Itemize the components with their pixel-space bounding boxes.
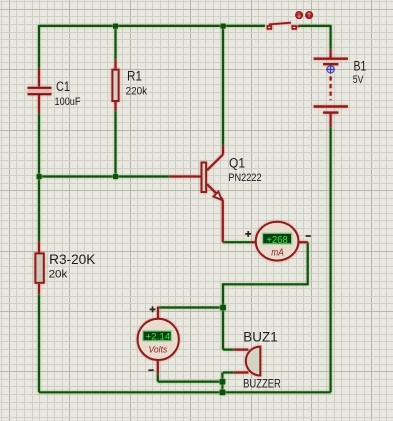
- switch actuator dot right: [305, 11, 313, 19]
- junction voltmeter minus-buzzer column: [220, 379, 226, 385]
- wire: buzzer column upper vertical: [222, 283, 224, 349]
- wire: bottom rail: [39, 391, 331, 393]
- svg-text:PN2222: PN2222: [228, 172, 261, 184]
- wire: voltmeter minus lead lower: [157, 374, 159, 382]
- svg-text:C1: C1: [56, 79, 70, 94]
- wire: R1 bottom lead wire: [114, 111, 116, 177]
- svg-text:5V: 5V: [353, 74, 364, 86]
- buzzer BUZ1: [234, 347, 260, 376]
- wire: right rail battery to bottom corner: [330, 127, 332, 392]
- wire: buzzer bottom pin wire: [223, 371, 234, 373]
- junction base-left rail: [37, 174, 42, 179]
- ammeter U-mA: [251, 222, 308, 261]
- wire: voltmeter plus horizontal wire: [159, 306, 223, 308]
- resistor R3: [35, 242, 43, 294]
- ammeter minus sign: [306, 235, 311, 237]
- svg-text:BUZ1: BUZ1: [243, 329, 277, 344]
- svg-text:20k: 20k: [49, 269, 68, 281]
- wire: emitter to ammeter plus wire: [223, 241, 251, 243]
- svg-text:100uF: 100uF: [55, 96, 81, 108]
- wire: ammeter to buzzer column horizontal: [223, 283, 309, 285]
- svg-text:R3-20K: R3-20K: [49, 252, 95, 267]
- svg-text:Volts: Volts: [149, 344, 168, 355]
- junction collector top: [221, 24, 226, 29]
- wire: top rail from left corner to switch: [39, 25, 331, 392]
- svg-text:mA: mA: [271, 247, 284, 258]
- wire: left rail top segment (corner to C1): [38, 25, 40, 68]
- switch actuator dot left: [295, 11, 303, 19]
- wire: buzzer top pin wire: [223, 349, 234, 351]
- junction buzzer column-bottom rail: [220, 390, 226, 396]
- wire: switch to top-right corner: [299, 25, 331, 27]
- switch SW1 open blade and terminals: [267, 23, 300, 29]
- wire: ammeter minus down: [307, 242, 309, 284]
- wire: voltmeter minus horizontal to junction: [158, 381, 223, 383]
- battery origin marker: [326, 65, 335, 74]
- voltmeter U-Volts: [138, 307, 179, 375]
- svg-text:B1: B1: [354, 59, 367, 74]
- wire: collector wire down from top rail: [222, 26, 224, 146]
- battery B1: [314, 50, 348, 127]
- svg-text:Q1: Q1: [229, 155, 245, 170]
- wire: base wire from left rail: [39, 175, 170, 177]
- wire: buzzer column lower vertical: [221, 373, 223, 393]
- junction voltmeter plus-buzzer column: [220, 305, 226, 311]
- junction R1 top: [113, 24, 118, 29]
- wire: left rail C1 to R3: [38, 113, 40, 242]
- svg-text:R1: R1: [127, 68, 142, 83]
- svg-text:220k: 220k: [126, 86, 148, 98]
- ammeter plus sign: [245, 231, 251, 237]
- wire: R1 top lead wire: [114, 25, 116, 60]
- svg-text:+2.14: +2.14: [145, 331, 170, 342]
- resistor R1: [112, 60, 118, 111]
- wire: top-right corner down to battery: [330, 25, 332, 50]
- voltmeter plus sign: [150, 306, 156, 312]
- svg-text:BUZZER: BUZZER: [243, 377, 281, 391]
- svg-text:+268: +268: [266, 235, 288, 246]
- voltmeter minus sign: [148, 369, 153, 371]
- wire: left rail R3 to bottom corner: [38, 294, 40, 392]
- transistor Q1: [170, 146, 223, 243]
- capacitor C1: [28, 68, 52, 113]
- junction R1 bottom-base wire: [113, 174, 118, 179]
